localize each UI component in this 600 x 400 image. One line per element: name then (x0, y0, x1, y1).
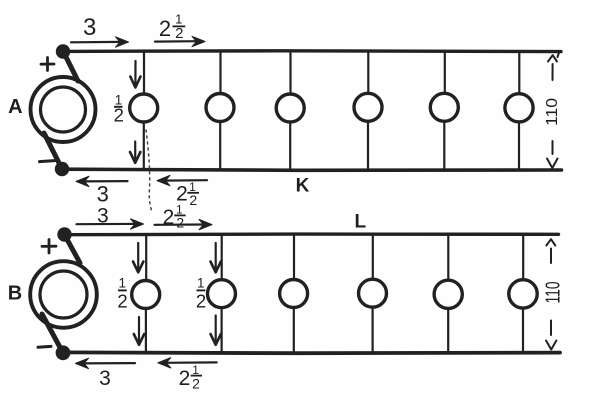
lamp branch A1 (130, 53, 158, 168)
current arrow: 3 A on B top bus (77, 219, 144, 229)
value label: 2 1/2 (A bottom) (176, 180, 199, 208)
current arrow: 2 1/2 A return on B bottom bus (158, 358, 217, 368)
svg-text:110: 110 (543, 282, 565, 304)
svg-text:110: 110 (544, 98, 561, 126)
svg-text:2: 2 (189, 192, 197, 208)
generator B (source, double circle) (30, 261, 97, 328)
lamp branch A6 (505, 53, 533, 168)
wire: A - terminal lead (44, 133, 61, 167)
wire: circuit B top bus (64, 232, 559, 236)
current arrow: 2 1/2 A on B top bus (155, 219, 213, 229)
svg-text:2: 2 (176, 214, 184, 230)
polarity -: circuit B (38, 345, 51, 349)
lamp branch A4 (354, 53, 382, 168)
current arrow: down into lamp B1 (above) (133, 243, 143, 272)
junction dot: A + terminal (56, 44, 70, 58)
wire: circuit B bottom bus (63, 350, 560, 355)
polarity -: circuit A (40, 161, 55, 162)
junction dot: B + terminal (57, 227, 71, 241)
svg-text:2: 2 (163, 206, 175, 229)
svg-text:3: 3 (97, 204, 109, 227)
value label: 1/2 (lamp A1 current) (114, 93, 124, 126)
svg-text:A: A (8, 96, 22, 118)
svg-text:3: 3 (83, 14, 96, 41)
value label: 2 1/2 (A top) (159, 12, 185, 42)
current arrow: down into lamp A1 (above) (130, 61, 140, 88)
svg-text:2: 2 (196, 290, 206, 311)
lamp branch B6 (509, 236, 537, 351)
current arrow: 3 A return on A bottom bus (76, 176, 128, 186)
current arrow: down out of lamp B2 (below) (211, 316, 221, 345)
value label: 1/2 (lamp B1 current) (117, 276, 127, 312)
current arrow: down into lamp B2 (above) (211, 243, 221, 272)
polarity +: circuit B (42, 240, 56, 254)
lamp branch B5 (434, 236, 462, 351)
dimension arrows: 110 V across circuit B (546, 239, 556, 349)
junction dot: A - terminal (55, 162, 69, 176)
current arrow: 2 1/2 A on A top bus (155, 36, 205, 46)
svg-text:2: 2 (159, 16, 171, 41)
lamp branch A3 (276, 53, 304, 168)
value label: 1/2 (lamp B2 current) (196, 276, 206, 312)
svg-text:2: 2 (114, 105, 124, 126)
svg-text:1: 1 (119, 276, 127, 291)
polarity +: circuit A (41, 58, 54, 71)
lamp branch B1 (132, 236, 160, 351)
lamp branch B2 (208, 236, 236, 351)
lamp branch A5 (430, 53, 458, 168)
value label: 2 1/2 (B bottom) (179, 363, 202, 391)
dashed construction curve near branch A1 (146, 130, 152, 213)
svg-text:3: 3 (99, 367, 111, 390)
svg-text:2: 2 (117, 290, 127, 311)
wire: circuit A bottom bus (62, 169, 562, 170)
lamp branch B3 (280, 236, 308, 351)
lamp branch A2 (206, 53, 234, 168)
current arrow: down out of lamp A1 (below) (130, 142, 140, 163)
svg-text:2: 2 (179, 367, 191, 390)
svg-text:1: 1 (197, 276, 205, 291)
junction dot: B - terminal (56, 345, 71, 360)
svg-text:B: B (8, 283, 22, 305)
current arrow: 3 A return on B bottom bus (76, 358, 136, 368)
wire: B + terminal lead (66, 237, 81, 264)
current arrow: down out of lamp B1 (below) (134, 317, 144, 345)
dimension arrows: 110 V across circuit A (547, 55, 558, 168)
current arrow: 3 A on A top bus (71, 37, 129, 47)
current arrow: 2 1/2 A return on A bottom bus (157, 175, 207, 185)
svg-text:3: 3 (97, 182, 109, 207)
generator A (source, double circle) (31, 77, 96, 142)
lamp branch B4 (359, 236, 387, 351)
value label: 2 1/2 (B top) (163, 202, 186, 230)
wire: B - terminal lead (42, 314, 62, 351)
wire: circuit A top bus (63, 51, 561, 57)
svg-text:K: K (296, 176, 310, 197)
svg-text:2: 2 (192, 375, 200, 391)
svg-text:2: 2 (175, 25, 183, 42)
wire: A + terminal lead (64, 53, 78, 81)
svg-text:L: L (354, 212, 366, 233)
